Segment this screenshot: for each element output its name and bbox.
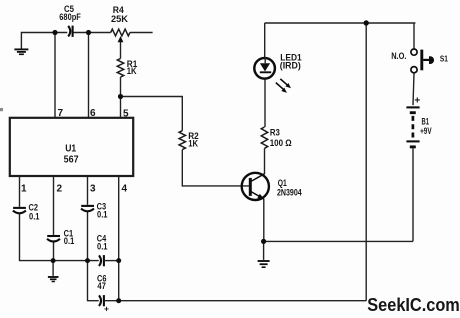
svg-text:7: 7 (58, 108, 64, 119)
svg-text:47: 47 (97, 281, 106, 291)
svg-text:5: 5 (123, 109, 129, 120)
svg-text:Q1: Q1 (278, 178, 287, 188)
svg-text:25K: 25K (111, 14, 128, 24)
svg-text:0.1: 0.1 (97, 209, 108, 219)
svg-text:U1: U1 (65, 143, 76, 154)
svg-text:3: 3 (90, 184, 96, 195)
svg-text:1K: 1K (188, 139, 198, 149)
svg-text:+: + (414, 96, 420, 107)
svg-text:(IRD): (IRD) (280, 60, 301, 71)
svg-text:2: 2 (57, 184, 63, 195)
svg-text:567: 567 (64, 155, 79, 166)
svg-text:6: 6 (90, 108, 96, 119)
svg-text:0.1: 0.1 (97, 241, 108, 251)
svg-text:1K: 1K (127, 66, 137, 76)
svg-text:2N3904: 2N3904 (277, 188, 302, 198)
svg-text:0.1: 0.1 (29, 212, 40, 222)
svg-text:100 Ω: 100 Ω (270, 138, 292, 148)
svg-text:680pF: 680pF (59, 12, 81, 22)
svg-text:R3: R3 (270, 128, 280, 138)
svg-text:N.O.: N.O. (391, 51, 406, 62)
svg-text:1: 1 (21, 184, 27, 195)
svg-text:+9V: +9V (420, 126, 432, 136)
svg-text:0.1: 0.1 (64, 236, 75, 246)
svg-text:S1: S1 (440, 54, 448, 64)
svg-text:+: + (104, 304, 109, 314)
svg-text:4: 4 (122, 184, 128, 195)
svg-text:SeekIC.com: SeekIC.com (367, 295, 460, 315)
